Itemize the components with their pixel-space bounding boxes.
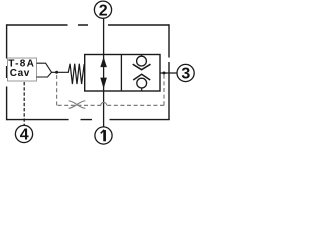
valve box xyxy=(85,55,160,92)
pilot line right vertical xyxy=(163,75,165,106)
check valve top: stem xyxy=(141,55,143,57)
spring xyxy=(52,64,85,84)
junction dot port3 pilot xyxy=(163,72,166,75)
pilot line hop over wire xyxy=(101,102,107,105)
cavity label box xyxy=(8,58,37,81)
port 2 xyxy=(94,1,111,19)
port 3 xyxy=(177,64,194,82)
drain dashed wire to port 4 xyxy=(23,82,25,125)
enclosure left border xyxy=(6,24,8,120)
enclosure bottom border xyxy=(7,119,170,121)
check valve bottom: seat xyxy=(133,74,150,80)
port 4 xyxy=(15,125,32,143)
svg-text:2: 2 xyxy=(99,2,108,19)
check valve bottom: ball xyxy=(137,78,147,88)
check valve top: seat xyxy=(133,64,151,70)
cavity label banner xyxy=(37,63,52,77)
valve box divider xyxy=(120,55,122,92)
enclosure top border xyxy=(7,24,169,26)
svg-text:4: 4 xyxy=(20,127,29,144)
enclosure right border xyxy=(168,24,170,119)
svg-text:3: 3 xyxy=(181,66,190,83)
port 1 xyxy=(95,127,112,144)
pilot line horizontal right xyxy=(107,104,164,106)
svg-text:Cav: Cav xyxy=(10,68,30,79)
wire valve to port 3 xyxy=(160,72,177,74)
pilot line left vertical xyxy=(56,74,58,106)
double arrow up head xyxy=(100,57,107,67)
check valve bottom: stem xyxy=(141,88,143,91)
check valve top: ball xyxy=(137,56,147,66)
pilot line horizontal left xyxy=(57,104,102,106)
double arrow down head xyxy=(100,78,107,89)
junction dot spring pilot xyxy=(55,71,58,74)
wire port2 to valve to port1 xyxy=(103,18,105,126)
orifice restriction xyxy=(69,101,86,109)
